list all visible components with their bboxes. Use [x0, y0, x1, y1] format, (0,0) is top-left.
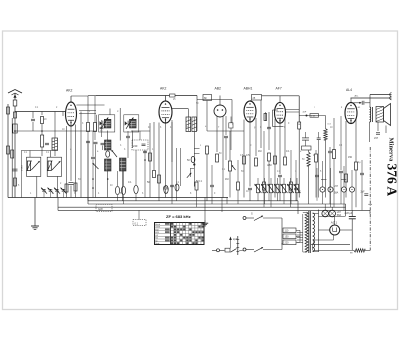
svg-text:Minerva: Minerva — [388, 138, 395, 163]
svg-text:240: 240 — [133, 144, 138, 148]
svg-text:KW: KW — [155, 229, 158, 231]
svg-text:Band: Band — [155, 224, 160, 226]
svg-text:L57: L57 — [334, 185, 339, 188]
svg-text:AZ 1: AZ 1 — [331, 221, 338, 225]
svg-text:1M: 1M — [225, 178, 228, 181]
svg-text:2μF: 2μF — [361, 192, 366, 194]
svg-text:4nF: 4nF — [303, 112, 307, 114]
svg-text:AK2: AK2 — [66, 89, 73, 93]
svg-text:L57: L57 — [374, 137, 379, 140]
svg-text:2μF: 2μF — [233, 238, 238, 241]
svg-text:376 A: 376 A — [385, 164, 400, 197]
svg-text:220: 220 — [285, 242, 290, 245]
svg-text:2M: 2M — [268, 164, 271, 167]
svg-text:58A: 58A — [334, 192, 339, 195]
svg-text:0.084: 0.084 — [22, 165, 24, 171]
svg-text:6F: 6F — [204, 97, 207, 100]
svg-text:LW: LW — [155, 235, 158, 237]
svg-text:1M: 1M — [258, 150, 261, 153]
svg-text:ZF = 683 kHz: ZF = 683 kHz — [166, 214, 191, 219]
svg-text:0.5: 0.5 — [246, 154, 250, 157]
svg-text:ABH1: ABH1 — [244, 87, 253, 91]
svg-text:MW: MW — [155, 232, 159, 234]
svg-text:AK2: AK2 — [160, 87, 167, 91]
svg-text:0.1: 0.1 — [135, 222, 139, 225]
svg-text:0.1: 0.1 — [286, 150, 290, 153]
svg-text:0.1: 0.1 — [128, 181, 132, 184]
svg-text:UKW: UKW — [155, 227, 160, 229]
svg-text:Netz: Netz — [155, 242, 159, 245]
svg-text:GW: GW — [98, 207, 103, 211]
svg-text:2x8 μF: 2x8 μF — [345, 211, 353, 215]
svg-text:AB2: AB2 — [215, 87, 222, 91]
svg-text:AL4: AL4 — [346, 88, 352, 92]
svg-text:1M: 1M — [297, 124, 300, 126]
svg-text:150: 150 — [285, 236, 290, 239]
svg-text:AF7: AF7 — [276, 87, 282, 91]
svg-text:110: 110 — [285, 230, 289, 233]
svg-text:150: 150 — [348, 156, 353, 159]
